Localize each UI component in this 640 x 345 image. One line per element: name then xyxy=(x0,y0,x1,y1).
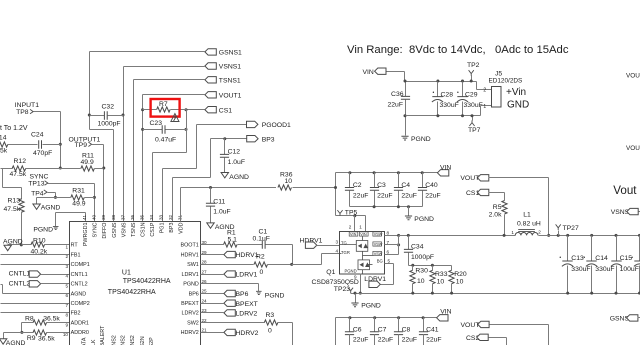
wire C15 top lead xyxy=(616,236,618,261)
svg-text:PGND: PGND xyxy=(265,293,285,300)
svg-text:BOOT1: BOOT1 xyxy=(181,243,199,249)
wire BP3 net xyxy=(211,138,250,140)
wire COMP2 pin 7 xyxy=(1,303,70,305)
svg-text:R2: R2 xyxy=(256,254,265,261)
junction C29 top xyxy=(461,80,464,83)
wire VOUT1 drop xyxy=(548,178,550,236)
ground AGND R9 xyxy=(0,339,7,344)
svg-text:1: 1 xyxy=(359,225,362,230)
svg-text:DIFFO: DIFFO xyxy=(102,223,108,239)
svg-text:TP8: TP8 xyxy=(16,109,29,116)
transistor Q1 CSD87350Q5D body xyxy=(340,232,385,275)
test point TP9 xyxy=(88,142,91,146)
svg-text:6: 6 xyxy=(387,250,390,255)
wire R9 to pin 10 xyxy=(47,332,70,334)
svg-text:INPUT1: INPUT1 xyxy=(15,102,39,109)
wire R5 bottom lead xyxy=(504,215,506,236)
junction C8 top xyxy=(397,316,400,319)
junction R7 left xyxy=(141,108,144,111)
svg-text:Vout: Vout xyxy=(613,184,637,197)
capacitor C8 xyxy=(394,332,403,335)
wire C8 bottom lead xyxy=(398,335,400,345)
wire VSW bracket vertical xyxy=(398,236,400,255)
wire C4 bottom lead xyxy=(398,191,400,207)
svg-text:47.5k: 47.5k xyxy=(10,171,27,178)
wire Q1 FET to PGND xyxy=(362,270,364,274)
svg-text:22uF: 22uF xyxy=(401,192,417,199)
flag VSNS xyxy=(627,208,638,214)
svg-text:36.5k: 36.5k xyxy=(43,315,60,322)
svg-text:LDRV1: LDRV1 xyxy=(364,276,386,283)
test point TP2 xyxy=(469,70,474,76)
svg-text:HDRV1: HDRV1 xyxy=(181,252,199,258)
resistor R14 partial xyxy=(0,142,8,147)
svg-text:GSNS1: GSNS1 xyxy=(219,50,242,57)
flag BP3 xyxy=(247,136,258,142)
wire R8 to pin 9 xyxy=(47,322,70,324)
capacitor C1 xyxy=(262,240,265,249)
wire BP6 stub xyxy=(201,293,224,295)
svg-text:GSNS: GSNS xyxy=(610,315,630,322)
resistor R20 xyxy=(449,270,454,284)
svg-text:37: 37 xyxy=(120,214,125,220)
svg-text:TP9: TP9 xyxy=(75,142,88,149)
wire VOUT rail xyxy=(539,235,640,237)
svg-text:VIN: VIN xyxy=(440,309,451,316)
svg-text:PGND: PGND xyxy=(345,268,357,273)
wire C36 to PGND xyxy=(405,116,407,136)
wire R20 bottom lead xyxy=(451,284,453,294)
svg-text:TSNS2: TSNS2 xyxy=(130,335,136,345)
svg-text:1.0uF: 1.0uF xyxy=(213,209,230,216)
wire FB2 pin 8 xyxy=(1,312,70,314)
svg-text:VIN: VIN xyxy=(350,232,357,236)
junction TP2 xyxy=(470,80,473,83)
capacitor C11 xyxy=(206,203,215,206)
svg-text:330uF: 330uF xyxy=(464,102,483,109)
wire C14 bottom lead xyxy=(591,266,593,294)
svg-text:22uF: 22uF xyxy=(426,337,442,344)
svg-text:1000pF: 1000pF xyxy=(411,254,434,261)
wire C23 left lead xyxy=(143,129,163,131)
junction C15 bottom xyxy=(615,292,618,295)
svg-text:BG: BG xyxy=(377,259,383,264)
wire GSNS1 jog xyxy=(90,129,114,131)
wire bootstrap down to SW1 xyxy=(292,245,294,265)
junction C16 bottom xyxy=(638,292,640,295)
wire C28 top lead xyxy=(437,82,439,97)
svg-text:36: 36 xyxy=(130,214,135,220)
flag CS1 at output xyxy=(477,189,488,195)
svg-text:R13: R13 xyxy=(8,198,21,205)
wire C11 top lead xyxy=(210,188,212,204)
wire Q1 TG to gate xyxy=(340,244,357,246)
wire TP9 net xyxy=(92,144,104,146)
wire GSNS to edge xyxy=(638,317,640,319)
svg-text:22uF: 22uF xyxy=(388,102,404,109)
capacitor C32 xyxy=(104,111,107,120)
test point TP7 xyxy=(469,120,474,126)
wire VOUT2 right xyxy=(490,324,549,326)
svg-text:7: 7 xyxy=(65,303,68,308)
svg-text:7: 7 xyxy=(387,240,390,245)
wire AGND stem xyxy=(36,198,38,205)
test point TP13 xyxy=(45,181,48,185)
flag TSNS1 xyxy=(205,77,216,83)
wire PGND symbol stem xyxy=(355,294,357,303)
svg-text:•: • xyxy=(457,90,459,96)
svg-text:32: 32 xyxy=(168,214,173,220)
svg-text:BP3: BP3 xyxy=(169,223,175,233)
wire VOUT1 net xyxy=(143,94,205,96)
svg-text:36.5k: 36.5k xyxy=(38,336,55,343)
wire CS1 net xyxy=(187,109,205,111)
wire AGND pin 6 xyxy=(3,293,70,295)
svg-text:SYNC: SYNC xyxy=(93,222,99,237)
junction C14 top xyxy=(590,234,593,237)
junction R33 top xyxy=(431,264,434,267)
wire LDRV2 stub xyxy=(201,312,224,314)
wire PGND stem pin41 xyxy=(55,213,57,227)
svg-text:0.47uF: 0.47uF xyxy=(155,136,176,143)
junction R12 R11 xyxy=(59,167,62,170)
junction PGND symbol xyxy=(354,292,357,295)
wire CS2 right xyxy=(489,337,507,339)
junction R30 bottom xyxy=(411,292,414,295)
wire VOUT1 to drop xyxy=(489,177,549,179)
wire CS1 jog xyxy=(153,152,187,154)
wire Q1 VSW link xyxy=(363,255,373,257)
junction C14 bottom xyxy=(590,292,593,295)
ground PGND pin41 xyxy=(53,226,59,229)
svg-text:Q1: Q1 xyxy=(326,269,335,276)
wire R11 left lead xyxy=(61,168,81,170)
svg-text:C11: C11 xyxy=(213,199,225,206)
svg-text:1: 1 xyxy=(511,230,514,235)
Q1 internal pad VSW xyxy=(373,242,382,246)
wire snubber top rail xyxy=(409,265,452,267)
wire VDD to R36 to VIN xyxy=(181,187,336,189)
svg-text:R9: R9 xyxy=(27,335,36,342)
wire R20 top lead xyxy=(451,266,453,271)
wire R10 left lead xyxy=(22,244,32,246)
capacitor C41 xyxy=(419,332,428,335)
flag CS1 xyxy=(205,107,216,113)
svg-text:R31: R31 xyxy=(72,187,85,194)
wire R13 bottom lead xyxy=(21,212,23,245)
svg-text:35: 35 xyxy=(139,214,144,220)
svg-text:25: 25 xyxy=(202,289,208,294)
Q1 internal low-side FET xyxy=(358,260,370,270)
svg-text:34: 34 xyxy=(149,214,154,220)
wire HDRV2 stub xyxy=(201,332,224,334)
svg-text:HDRV2: HDRV2 xyxy=(181,330,199,336)
junction C3 bottom xyxy=(373,205,376,208)
svg-text:SMBCLK: SMBCLK xyxy=(91,339,97,345)
wire TSNS1 net xyxy=(134,79,205,81)
wire pin 41 drop xyxy=(85,213,87,222)
wire R9 left lead xyxy=(22,332,34,334)
wire GSNS1 to pin 38 xyxy=(113,130,115,222)
test point TP5 xyxy=(337,210,342,216)
wire PGND drop xyxy=(408,207,410,216)
junction C41 top xyxy=(422,316,425,319)
svg-text:TSNS: TSNS xyxy=(131,222,137,237)
junction R11 right xyxy=(102,167,105,170)
capacitor C13 polarized xyxy=(562,261,573,266)
flag VSNS1 xyxy=(205,63,216,69)
capacitor C40 xyxy=(418,188,427,191)
wire C12 bottom lead xyxy=(224,158,226,173)
svg-text:4: 4 xyxy=(335,249,338,254)
junction R30 top xyxy=(411,264,414,267)
svg-text:LDRV2: LDRV2 xyxy=(236,311,258,318)
wire Q1 PGND stub xyxy=(360,274,362,294)
svg-text:VDD: VDD xyxy=(179,222,185,233)
svg-text:CS1P: CS1P xyxy=(150,222,156,236)
junction R9 xyxy=(20,331,23,334)
wire to Q1 TGR xyxy=(322,253,340,255)
junction C3 top xyxy=(373,171,376,174)
svg-text:2: 2 xyxy=(65,254,68,259)
junction R31 right xyxy=(93,196,96,199)
svg-text:1: 1 xyxy=(483,104,486,110)
svg-text:R3: R3 xyxy=(266,312,275,319)
wire R33 top lead xyxy=(432,266,434,271)
wire BG down xyxy=(393,264,395,285)
flag CS2 xyxy=(477,334,488,340)
svg-text:FB2: FB2 xyxy=(71,311,81,317)
svg-text:5.1: 5.1 xyxy=(228,237,238,244)
wire CNTL2 to pin 5 xyxy=(41,283,70,285)
capacitor C23 xyxy=(162,125,165,134)
svg-text:470pF: 470pF xyxy=(33,150,52,157)
svg-text:4: 4 xyxy=(65,274,68,279)
wire CS2 down xyxy=(506,338,508,345)
wire SW2 to R3 xyxy=(201,322,265,324)
svg-text:10: 10 xyxy=(285,178,293,185)
ground PGND rail xyxy=(351,303,358,307)
flag VOUT2 xyxy=(478,321,489,327)
wire R3 right xyxy=(278,322,293,324)
ground AGND C12 xyxy=(221,173,228,178)
ground AGND TP4 xyxy=(33,204,40,209)
junction C16 top xyxy=(638,234,640,237)
svg-text:GSNS2: GSNS2 xyxy=(111,335,117,345)
svg-text:C40: C40 xyxy=(425,182,438,189)
wire C36 bottom lead xyxy=(405,100,407,116)
capacitor C24 xyxy=(39,140,42,149)
wire C6 bottom lead xyxy=(349,335,351,345)
svg-text:ED120/2DS: ED120/2DS xyxy=(489,77,523,84)
svg-text:2: 2 xyxy=(538,230,541,235)
wire TP8 vertical xyxy=(60,112,62,169)
svg-text:SW2: SW2 xyxy=(187,321,199,327)
wire R30 bottom lead xyxy=(412,284,414,294)
wire VIN vertical xyxy=(335,173,337,216)
svg-text:TGR: TGR xyxy=(341,250,350,255)
svg-text:LDRV2: LDRV2 xyxy=(182,311,199,317)
wire BP3 to pin 32 xyxy=(172,178,174,222)
wire BG to LDRV1 flag xyxy=(381,284,394,286)
wire LDRV1 stub xyxy=(201,274,224,276)
wire BOOT1 to R1 xyxy=(201,244,224,246)
wire R12 right lead xyxy=(26,168,61,170)
junction C2 top xyxy=(348,171,351,174)
svg-text:PGND: PGND xyxy=(361,302,381,309)
wire PGOOD1 jog xyxy=(163,168,197,170)
wire SW node rail xyxy=(399,235,516,237)
svg-text:VSNS1: VSNS1 xyxy=(219,64,242,71)
svg-text:PGOOD1: PGOOD1 xyxy=(262,122,291,129)
wire to AGND xyxy=(37,197,56,199)
svg-text:40: 40 xyxy=(92,214,97,220)
wire FB1 pin 2 xyxy=(1,254,70,256)
svg-text:PWRGD1: PWRGD1 xyxy=(83,223,89,247)
svg-text:C41: C41 xyxy=(426,326,439,333)
wire rail to J5 pin2 xyxy=(476,82,478,90)
svg-text:49.9: 49.9 xyxy=(81,159,94,166)
wire to AGND bottom xyxy=(4,332,22,334)
svg-text:C36: C36 xyxy=(391,91,404,98)
svg-text:C29: C29 xyxy=(465,91,478,98)
resistor R11 xyxy=(81,166,95,171)
wire CS1 to pin 34 xyxy=(152,153,154,222)
capacitor C4 xyxy=(394,188,403,191)
wire R33 bottom lead xyxy=(432,284,434,294)
flag CNTL1 xyxy=(29,271,40,277)
svg-text:R20: R20 xyxy=(454,271,467,278)
svg-text:VIN: VIN xyxy=(360,232,367,236)
wire VIN flag to corner xyxy=(387,71,405,73)
junction R36 VIN xyxy=(334,186,337,189)
junction TP4 R31 xyxy=(54,196,57,199)
wire Q1 BG pin 5 xyxy=(385,263,394,265)
svg-text:0: 0 xyxy=(268,327,272,334)
capacitor C36 xyxy=(401,96,410,99)
Q1 internal pad VIN xyxy=(349,232,358,236)
ground PGND input xyxy=(401,136,408,140)
svg-text:VSNS: VSNS xyxy=(611,209,630,216)
junction C4 bottom xyxy=(397,205,400,208)
svg-text:VSW: VSW xyxy=(374,232,383,236)
wire PGND pin 26 xyxy=(201,283,259,285)
wire to J5 pin 1 xyxy=(481,105,492,107)
flag VIN rail xyxy=(437,170,448,176)
wire Q1 VIN to FET xyxy=(362,237,364,241)
wire C3 bottom lead xyxy=(374,191,376,207)
wire PGND rail xyxy=(351,293,640,295)
wire C13 bottom lead xyxy=(567,266,569,294)
svg-text:C3: C3 xyxy=(377,182,386,189)
highlight box around R7 xyxy=(151,99,180,117)
Q1 internal pad VIN xyxy=(360,232,369,236)
svg-text:CNTL1: CNTL1 xyxy=(71,272,88,278)
svg-text:SW1: SW1 xyxy=(187,262,199,268)
flag HDRV1 at Q1 xyxy=(305,242,316,248)
wire R2 to junction xyxy=(268,264,292,266)
wire C7 top lead xyxy=(374,318,376,332)
wire down to input top rail xyxy=(404,72,406,82)
svg-text:•: • xyxy=(559,255,561,261)
junction C24 right xyxy=(59,143,62,146)
resistor R30 xyxy=(410,270,415,284)
flag VIN channel2 xyxy=(437,315,448,321)
svg-text:PG1: PG1 xyxy=(160,223,166,234)
svg-text:TPS40422RHA: TPS40422RHA xyxy=(108,289,156,296)
test point TP23 xyxy=(348,288,353,293)
test point TP27 xyxy=(556,224,561,230)
wire Q1 VSW pin 7 xyxy=(385,244,399,246)
wire TP2 stem xyxy=(471,76,473,82)
svg-text:330uF: 330uF xyxy=(571,266,590,273)
wire VDD pin 31 up xyxy=(180,188,182,222)
junction R20 bottom xyxy=(450,292,453,295)
wire GSNS1 net xyxy=(90,51,205,53)
junction C34 top xyxy=(407,234,410,237)
svg-text:VOUT: VOUT xyxy=(626,73,640,80)
capacitor C7 xyxy=(370,332,379,335)
svg-text:1000pF: 1000pF xyxy=(98,121,121,128)
svg-text:28: 28 xyxy=(202,260,208,265)
wire R12 left lead xyxy=(1,168,13,170)
wire SW1 to R2 xyxy=(201,264,254,266)
svg-text:22uF: 22uF xyxy=(425,192,441,199)
svg-text:R14: R14 xyxy=(0,135,7,142)
junction C15 top xyxy=(615,234,618,237)
svg-text:PGND: PGND xyxy=(414,216,434,223)
svg-text:C14: C14 xyxy=(595,255,608,262)
wire PGND pin 26 down xyxy=(258,284,260,292)
junction PGND drop xyxy=(407,205,410,208)
svg-text:PGND: PGND xyxy=(183,282,199,288)
wire VIN rail xyxy=(336,172,438,174)
svg-text:R12: R12 xyxy=(14,158,27,165)
junction SW1 node xyxy=(290,263,293,266)
svg-text:R7: R7 xyxy=(159,101,168,108)
wire C2 top lead xyxy=(349,173,351,188)
svg-text:LDRV1: LDRV1 xyxy=(236,272,258,279)
junction C40 top xyxy=(421,171,424,174)
wire C16 top lead xyxy=(639,236,640,261)
svg-text:VOUT: VOUT xyxy=(626,145,640,152)
svg-text:TP7: TP7 xyxy=(468,127,481,134)
svg-text:+Vin: +Vin xyxy=(506,87,526,98)
wire Q1 VSW pin 6 xyxy=(385,254,399,256)
capacitor C2 xyxy=(345,188,354,191)
wire R5 top lead xyxy=(504,193,506,201)
svg-text:C28: C28 xyxy=(441,91,454,98)
junction C28 bottom xyxy=(436,114,439,117)
junction C4 top xyxy=(397,171,400,174)
wire C7 bottom lead xyxy=(374,335,376,345)
wire AGND elbow xyxy=(2,285,4,294)
wire AGND stem bottom xyxy=(3,333,5,339)
wire to R13 top xyxy=(3,187,22,189)
svg-text:VOUT1: VOUT1 xyxy=(219,92,242,99)
wire Q1 BG gate xyxy=(368,264,373,266)
wire HDRV1 stub xyxy=(201,254,224,256)
svg-text:33: 33 xyxy=(159,214,164,220)
wire AGND to R13 xyxy=(8,244,22,246)
junction C36 top xyxy=(404,80,407,83)
wire PGOOD1 vertical xyxy=(196,125,198,169)
wire C1 to corner xyxy=(266,244,293,246)
svg-text:R33: R33 xyxy=(435,271,448,278)
junction C29 bottom xyxy=(461,114,464,117)
wire C34 top lead xyxy=(408,236,410,250)
wire rail to J5 pin1 xyxy=(480,106,482,116)
